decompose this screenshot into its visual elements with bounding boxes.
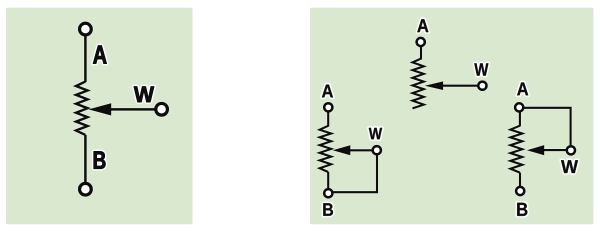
terminal W (variant 3) <box>567 146 575 154</box>
wire resistor to terminal B (variant 2) <box>327 172 329 193</box>
terminal B (variant 2) <box>324 189 332 197</box>
wiper wire W (variant 2) <box>347 149 373 151</box>
wire terminal A to resistor (variant 1) <box>420 42 422 60</box>
wiper arrowhead (variant 3) <box>527 145 544 155</box>
terminal B (variant 3) <box>516 187 524 195</box>
wiper arrowhead (variant 1) <box>425 81 443 90</box>
label B (variant 3) <box>517 203 527 216</box>
wire resistor to terminal B (variant 3) <box>519 173 521 191</box>
terminal A (variant 2) <box>324 103 332 111</box>
right green panel <box>310 8 593 225</box>
wire terminal A to resistor (variant 2) <box>327 107 329 126</box>
resistor element (variant 1) <box>413 59 424 109</box>
terminal W (wiper circle) <box>156 103 168 115</box>
wiper wire W (variant 3) <box>542 149 567 151</box>
label A <box>93 46 107 64</box>
terminal W (variant 2) <box>373 146 381 154</box>
wire terminal A to resistor (variant 3) <box>519 108 521 127</box>
terminal W (variant 1) <box>478 82 486 90</box>
wire A to W corner (variant 3) <box>524 108 571 147</box>
terminal A (variant 1) <box>417 38 425 46</box>
wire W down (variant 2) <box>376 150 378 192</box>
resistor element (variant 2) <box>320 126 332 172</box>
label A (variant 2) <box>322 85 333 98</box>
wire W to B junction (variant 2) <box>330 191 378 193</box>
label B <box>94 152 106 169</box>
wiper wire W <box>108 108 155 111</box>
wiper arrowhead <box>89 103 112 115</box>
resistor element (variant 3) <box>510 126 522 173</box>
wiper wire W (variant 1) <box>440 85 478 87</box>
wiper arrowhead (variant 2) <box>333 145 351 155</box>
label W (variant 2) <box>369 128 382 139</box>
wire resistor to terminal B <box>84 135 87 185</box>
label W (variant 3) <box>561 160 578 173</box>
label B (variant 2) <box>323 203 333 216</box>
wire terminal A to resistor <box>84 33 87 82</box>
label A (variant 1) <box>417 19 428 32</box>
terminal A (top circle) <box>80 23 92 35</box>
terminal A (variant 3) <box>515 103 523 111</box>
label W (variant 1) <box>474 63 488 75</box>
label W <box>134 87 154 103</box>
terminal B (bottom circle) <box>80 183 92 195</box>
left green panel <box>6 8 193 225</box>
resistor element (zigzag) <box>76 82 88 135</box>
label A (variant 3) <box>517 83 528 96</box>
